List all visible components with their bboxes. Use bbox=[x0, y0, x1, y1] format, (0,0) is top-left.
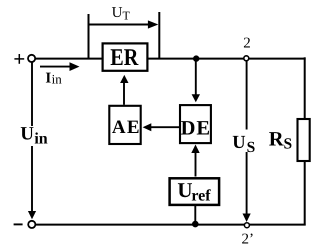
block Uref box bbox=[170, 178, 220, 205]
svg-text:Iin: Iin bbox=[45, 71, 62, 87]
terminal 2 circle bbox=[244, 56, 249, 61]
svg-text:2’: 2’ bbox=[242, 232, 255, 248]
block AE box bbox=[109, 106, 140, 144]
svg-text:AE: AE bbox=[112, 117, 141, 138]
terminal + circle bbox=[28, 55, 35, 62]
svg-text:2: 2 bbox=[243, 35, 251, 51]
wire Uin arrow upper segment bbox=[31, 62, 33, 126]
arrow junction to DE bbox=[195, 59, 197, 95]
label ER bbox=[110, 45, 139, 71]
UT bracket right bar bbox=[158, 12, 160, 58]
junction dot bottom bbox=[192, 221, 199, 228]
plus sign bbox=[14, 58, 24, 60]
arrow AE to ER bbox=[123, 82, 125, 105]
UT bracket left bar bbox=[88, 14, 90, 58]
US arrow upper segment bbox=[246, 61, 248, 130]
junction dot node 2 branch bbox=[193, 55, 199, 61]
svg-text:ER: ER bbox=[110, 45, 139, 71]
svg-text:UT: UT bbox=[112, 5, 131, 22]
svg-text:RS: RS bbox=[269, 129, 292, 153]
arrow DE to AE bbox=[151, 126, 180, 128]
wire top-left from + terminal to ER bbox=[35, 58, 103, 60]
wire Uin arrow lower segment with arrowhead bbox=[31, 146, 33, 213]
wire right vertical upper to RS bbox=[304, 57, 306, 119]
US arrow lower segment with arrowhead bbox=[246, 152, 248, 215]
terminal - circle bbox=[28, 221, 35, 228]
wire right vertical lower from RS bbox=[304, 161, 306, 226]
minus sign bbox=[14, 223, 23, 225]
svg-text:DE: DE bbox=[181, 118, 211, 140]
svg-text:Uin: Uin bbox=[20, 124, 48, 148]
UT arrow bbox=[90, 24, 151, 26]
terminal 2' circle bbox=[244, 223, 249, 228]
wire Uref to bottom wire bbox=[194, 206, 196, 225]
arrow Uref to DE bbox=[195, 153, 197, 177]
wire bottom from - terminal to bottom-right corner bbox=[36, 224, 306, 226]
svg-text:US: US bbox=[232, 133, 255, 156]
Iin current arrow bbox=[40, 66, 71, 68]
wire top-right from ER to top-right corner bbox=[147, 58, 306, 60]
block DE box bbox=[180, 105, 211, 143]
resistor RS bbox=[298, 119, 310, 161]
block ER box bbox=[103, 43, 148, 70]
